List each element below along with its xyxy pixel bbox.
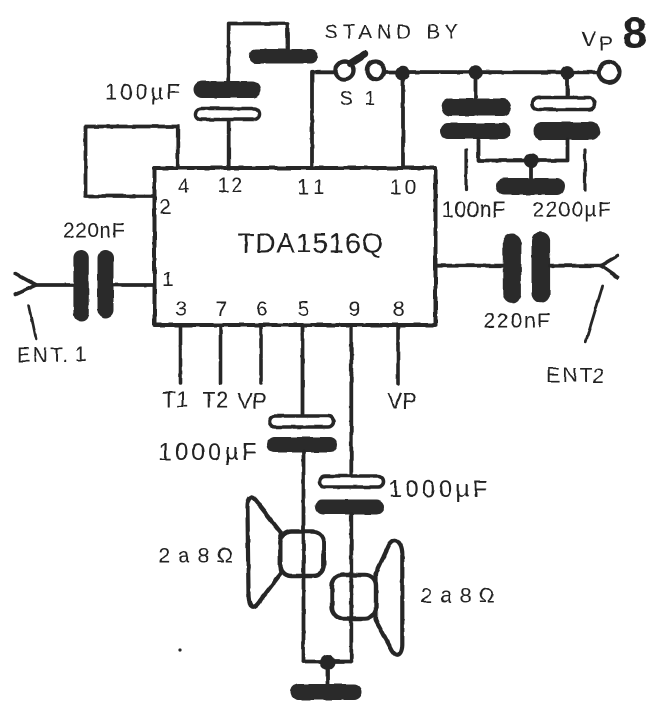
wire C1 to pin1 bbox=[114, 283, 154, 287]
svg-text:220nF: 220nF bbox=[63, 220, 125, 243]
svg-text:1: 1 bbox=[365, 88, 376, 110]
junction ground node bbox=[524, 153, 538, 167]
input terminal ENT.1 arrow bbox=[15, 274, 36, 295]
wire feedback loop pin4 to pin2 bbox=[86, 127, 178, 197]
svg-text:T2: T2 bbox=[203, 388, 229, 413]
capacitor C8 1000uF plates bbox=[315, 476, 384, 515]
wire rail down to 100nF bbox=[474, 72, 478, 99]
wire pin9 down to C8 bbox=[349, 327, 353, 474]
label T1 bbox=[163, 387, 189, 412]
wire pin6 stub bbox=[259, 327, 263, 383]
svg-text:100nF: 100nF bbox=[442, 197, 506, 222]
svg-text:1000µF: 1000µF bbox=[159, 439, 260, 466]
leader line ENT.1 bbox=[29, 306, 36, 339]
svg-text:1000µF: 1000µF bbox=[389, 476, 491, 503]
junction speakers bbox=[320, 655, 335, 670]
svg-text:100µF: 100µF bbox=[105, 80, 183, 105]
op-amp U1 TDA1516Q body bbox=[155, 168, 436, 325]
svg-text:2: 2 bbox=[593, 365, 605, 388]
svg-text:6: 6 bbox=[256, 298, 268, 321]
label ENT. 1 bbox=[17, 343, 87, 367]
capacitor C4 100nF plates bbox=[440, 99, 511, 140]
wire through LS1 bbox=[302, 533, 306, 575]
junction 2200uF rail bbox=[561, 66, 575, 80]
capacitor C2 100uF plates bbox=[194, 81, 262, 120]
wire pin3 stub bbox=[179, 327, 183, 383]
svg-text:9: 9 bbox=[349, 298, 361, 321]
wire C6 to ENT.2 arrow bbox=[550, 264, 601, 268]
svg-text:2200µF: 2200µF bbox=[533, 199, 612, 222]
wire C8 through speaker LS2 bbox=[349, 514, 353, 662]
svg-text:ENT.: ENT. bbox=[17, 344, 71, 367]
leader tick 2200uF bbox=[583, 150, 586, 190]
wire pin5 down to C7 bbox=[301, 327, 305, 414]
wire Vp supply rail bbox=[385, 70, 599, 74]
capacitor C6 220nF plates bbox=[503, 232, 550, 303]
label S1 bbox=[340, 88, 376, 110]
leader line ENT.2 bbox=[586, 286, 603, 342]
svg-text:1: 1 bbox=[162, 268, 174, 291]
wire pin8 stub bbox=[396, 327, 400, 384]
svg-text:2a8Ω: 2a8Ω bbox=[421, 585, 503, 608]
capacitor C5 2200uF plates bbox=[533, 98, 601, 141]
svg-text:8: 8 bbox=[623, 9, 647, 58]
svg-text:P: P bbox=[599, 33, 613, 56]
speaker LS2 box bbox=[332, 575, 376, 619]
wire rail down to 2200uF bbox=[566, 73, 570, 97]
svg-text:12: 12 bbox=[218, 174, 245, 197]
svg-text:7: 7 bbox=[216, 298, 228, 321]
wire pin7 stub bbox=[219, 327, 223, 383]
wire 100nF to ground junction bbox=[479, 139, 532, 161]
svg-text:4: 4 bbox=[178, 176, 189, 198]
svg-text:10: 10 bbox=[390, 176, 420, 199]
svg-text:S: S bbox=[340, 88, 353, 110]
wire 2200uF to ground junction bbox=[531, 140, 568, 161]
speaker LS1 horn bbox=[247, 497, 280, 606]
junction 100nF rail bbox=[469, 65, 483, 79]
stray dot mark bbox=[178, 648, 181, 651]
wire pin12 up to capacitor C2 bbox=[229, 24, 288, 167]
node stand-by connector bar bbox=[249, 49, 318, 64]
switch S1 bbox=[336, 54, 385, 79]
label ENT.2 bbox=[546, 364, 604, 388]
ground bar bottom bbox=[291, 684, 363, 700]
wire junction to ground bbox=[529, 161, 533, 180]
svg-text:VP: VP bbox=[388, 389, 417, 414]
junction pin10 rail bbox=[395, 66, 409, 80]
wire through LS2 bbox=[349, 576, 353, 618]
svg-text:T: T bbox=[163, 387, 176, 412]
svg-text:V: V bbox=[582, 28, 596, 51]
label Vp bbox=[582, 28, 613, 56]
svg-text:220nF: 220nF bbox=[484, 310, 553, 333]
speaker LS1 box bbox=[280, 532, 324, 577]
input terminal ENT.2 arrow bbox=[601, 256, 618, 278]
svg-text:8: 8 bbox=[393, 298, 405, 321]
svg-text:VP: VP bbox=[238, 389, 267, 414]
speaker LS2 horn bbox=[376, 540, 403, 655]
wire junction to ground bottom bbox=[326, 662, 330, 684]
svg-text:1: 1 bbox=[176, 387, 188, 412]
ground bar top bbox=[496, 178, 565, 195]
svg-text:2: 2 bbox=[160, 196, 172, 219]
wire input to C1 bbox=[36, 283, 74, 287]
wire output to C6 bbox=[437, 264, 503, 268]
svg-text:11: 11 bbox=[297, 176, 331, 199]
wire speakers common bbox=[304, 660, 352, 664]
svg-text:5: 5 bbox=[298, 298, 310, 321]
node Vp terminal bbox=[599, 62, 620, 83]
wire pin11 up to switch S1 bbox=[312, 72, 337, 166]
wire pin10 down from rail bbox=[401, 73, 405, 166]
svg-text:TDA1516Q: TDA1516Q bbox=[238, 228, 384, 259]
svg-text:STAND BY: STAND BY bbox=[325, 22, 464, 44]
capacitor C7 1000uF plates bbox=[267, 416, 338, 453]
capacitor C1 220nF plates bbox=[73, 250, 113, 321]
svg-text:2a8Ω: 2a8Ω bbox=[159, 545, 241, 568]
leader tick 100nF bbox=[464, 150, 467, 190]
svg-text:1: 1 bbox=[75, 343, 87, 366]
svg-text:3: 3 bbox=[175, 298, 187, 321]
wire C7 through speaker LS1 bbox=[302, 452, 306, 662]
